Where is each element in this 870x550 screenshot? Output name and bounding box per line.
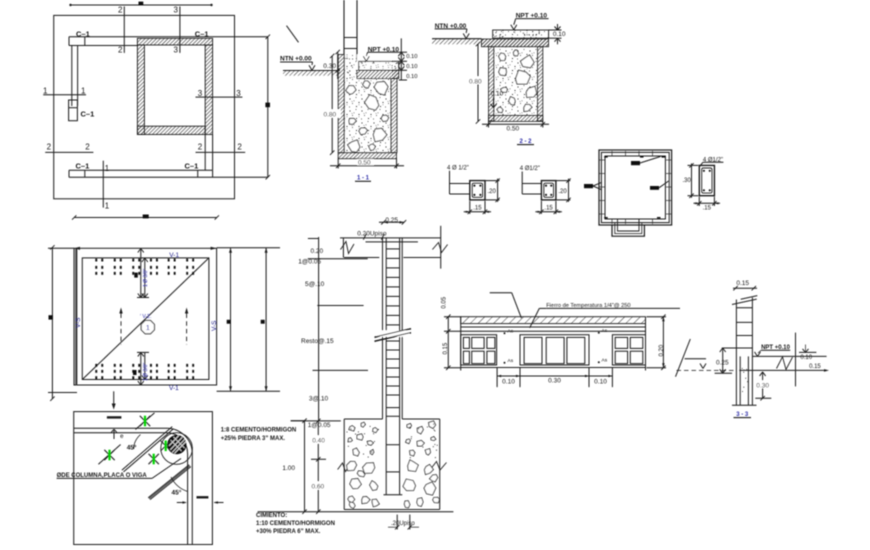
svg-text:0.20: 0.20 — [659, 344, 665, 356]
floor break — [777, 357, 793, 370]
dark hatch band — [481, 39, 548, 47]
svg-text:0.10: 0.10 — [502, 379, 515, 386]
left thick edge — [75, 248, 77, 385]
footing hatched border bottom — [338, 153, 396, 159]
slab bottom line — [461, 367, 646, 369]
svg-text:0.15: 0.15 — [736, 280, 749, 287]
svg-text:0.10: 0.10 — [491, 91, 504, 98]
wall top edge line — [69, 36, 268, 38]
right dim — [662, 317, 664, 368]
svg-text:.15: .15 — [703, 205, 712, 211]
footing rocks — [346, 86, 356, 95]
left wall lines — [71, 46, 73, 107]
svg-text:0.10: 0.10 — [406, 54, 417, 60]
e arrow — [113, 431, 115, 440]
bottom wall — [69, 169, 213, 171]
svg-text:.15: .15 — [473, 205, 482, 211]
dim line right — [267, 37, 269, 177]
footing border right — [538, 47, 543, 121]
svg-text:3: 3 — [174, 6, 179, 15]
dim 0.10 right — [799, 351, 816, 353]
svg-text:0.30: 0.30 — [323, 63, 336, 70]
svg-text:3: 3 — [174, 46, 179, 55]
width arrows bottom — [177, 502, 186, 504]
column break symbol — [375, 329, 412, 338]
bottom extension line — [258, 511, 454, 513]
dim height — [556, 180, 570, 182]
inner slab rect — [82, 258, 209, 380]
wall lines below structure — [204, 135, 206, 171]
dim 0.30 — [337, 52, 339, 79]
rebar tick marks — [611, 151, 613, 156]
axis lines through X marks — [135, 413, 154, 430]
svg-text:CIMIENTO:: CIMIENTO: — [256, 513, 287, 519]
svg-text:′ V-2.: ′ V-2. — [140, 314, 151, 320]
svg-text:2: 2 — [47, 143, 52, 152]
svg-text:+25% PIEDRA 3” MAX.: +25% PIEDRA 3” MAX. — [221, 436, 286, 442]
svg-text:V-S: V-S — [211, 320, 218, 331]
svg-text:0.30: 0.30 — [756, 382, 769, 389]
dim 0.25 — [722, 348, 724, 373]
bar section circle (hatched) — [168, 435, 186, 453]
column ties — [344, 37, 357, 39]
dim 0.10 floor — [549, 29, 562, 31]
bottom protrusion — [612, 225, 644, 236]
svg-text:As: As — [602, 328, 608, 334]
small tank plan — [584, 150, 672, 236]
hatched wall right — [205, 45, 212, 135]
svg-text:1: 1 — [81, 87, 86, 96]
dim 0.50 bottom — [337, 158, 339, 168]
svg-text:2: 2 — [118, 46, 123, 55]
svg-text:1@0.05: 1@0.05 — [298, 258, 321, 265]
footing rocks — [499, 53, 506, 60]
ground line — [432, 38, 481, 40]
foundation plan — [43, 2, 270, 211]
footing border left — [489, 47, 494, 121]
side edges — [460, 317, 462, 371]
svg-text:C–1: C–1 — [195, 29, 209, 38]
svg-text:2: 2 — [118, 6, 123, 15]
column section C-1 (a) — [447, 165, 500, 214]
mesh lines — [461, 326, 646, 328]
beam bottom lines — [344, 257, 379, 259]
column section C-1 (b) — [520, 166, 571, 214]
column section tall — [683, 157, 724, 211]
svg-text:0.80: 0.80 — [324, 112, 337, 119]
text cimiento — [256, 513, 335, 535]
dim 0.30 — [762, 372, 764, 398]
angle arc 2 + 45 deg — [171, 477, 188, 492]
svg-text:0.15: 0.15 — [443, 342, 449, 354]
ties in footing — [386, 444, 399, 446]
dim width — [540, 201, 542, 214]
section cut 2 (lower-right) — [196, 151, 246, 153]
footing fill — [494, 47, 538, 116]
thick dash right — [197, 496, 209, 498]
outer boundary — [54, 15, 235, 198]
hatched wall left — [137, 45, 144, 135]
ground hatch — [283, 71, 340, 76]
svg-text:4 Ø 1/2": 4 Ø 1/2" — [447, 165, 469, 171]
ground leader — [676, 339, 691, 377]
svg-text:45°: 45° — [172, 489, 182, 497]
block left — [461, 335, 497, 365]
bent bar inner line — [74, 433, 188, 545]
svg-text:0.10: 0.10 — [553, 31, 566, 38]
leader boxes — [631, 161, 640, 165]
bottom dims — [496, 368, 498, 387]
first tie line — [366, 241, 418, 243]
svg-text:1 Ø 3/8": 1 Ø 3/8" — [143, 269, 149, 287]
svg-text:1:10 CEMENTO/HORMIGON: 1:10 CEMENTO/HORMIGON — [256, 521, 335, 527]
hatched band under floor — [357, 70, 399, 78]
angle arc 1 + 45 deg — [134, 435, 141, 450]
svg-text:C–1: C–1 — [76, 161, 90, 170]
dashed arrows — [120, 314, 122, 345]
column marker dots — [134, 273, 138, 278]
block center — [520, 335, 589, 365]
corner detail — [57, 412, 224, 545]
axis bubble 1 — [141, 321, 154, 334]
section cut 1 (left) — [43, 94, 86, 96]
column below floor inner lines — [739, 356, 741, 405]
column — [735, 300, 737, 406]
svg-text:.20: .20 — [558, 189, 567, 195]
svg-text:C–1: C–1 — [76, 29, 90, 38]
svg-text:+30% PIEDRA 6” MAX.: +30% PIEDRA 6” MAX. — [256, 529, 321, 535]
svg-text:0.10: 0.10 — [406, 74, 417, 80]
column C-1 left end — [69, 100, 78, 121]
hatched wall bottom — [137, 126, 205, 134]
diagonal bar A — [122, 427, 172, 471]
outer slab rect — [74, 248, 217, 385]
block right — [612, 335, 645, 365]
svg-text:0.10: 0.10 — [594, 379, 607, 386]
dim .20Upiso bottom — [396, 515, 398, 530]
footing stones lower — [347, 462, 357, 471]
svg-text:0.25: 0.25 — [716, 360, 729, 367]
top-left leader — [490, 292, 512, 294]
left dim — [447, 317, 449, 368]
svg-text:C–1: C–1 — [185, 161, 199, 170]
svg-text:0.10: 0.10 — [406, 64, 417, 70]
dim 0.50 bottom — [488, 121, 490, 128]
column cross-section box — [541, 181, 556, 200]
slab section — [442, 293, 681, 387]
As labels — [504, 332, 506, 334]
floor lines — [752, 355, 826, 357]
footing stones upper — [349, 426, 355, 431]
dim 0.80 — [477, 44, 479, 122]
svg-text:0.40: 0.40 — [312, 438, 325, 445]
section cut 3 (right) — [196, 96, 243, 98]
svg-text:1:8 CEMENTO/HORMIGON: 1:8 CEMENTO/HORMIGON — [221, 428, 297, 434]
svg-text:.30: .30 — [683, 178, 692, 184]
section cut 2 (lower-left) — [45, 151, 93, 153]
dashed ground line — [677, 369, 737, 371]
arrow to detail — [113, 391, 115, 404]
svg-text:0.05: 0.05 — [442, 296, 448, 308]
svg-text:2: 2 — [85, 143, 90, 152]
section 3-3 — [676, 280, 833, 418]
svg-text:1 Ø 3/8": 1 Ø 3/8" — [143, 363, 149, 381]
svg-text:45°: 45° — [127, 444, 137, 452]
slab plan — [48, 215, 280, 410]
dim lines right 0.10 x3 — [400, 38, 402, 80]
column verticals — [382, 238, 384, 419]
svg-text:2: 2 — [237, 143, 242, 152]
section 1-1 — [280, 0, 417, 182]
top-left wall — [69, 45, 137, 47]
footing hatched border left — [338, 55, 344, 153]
footing hatched border right — [391, 79, 397, 153]
svg-text:2 - 2: 2 - 2 — [519, 139, 532, 145]
dim 1 dia 3/8 top — [140, 249, 142, 298]
leader — [521, 172, 523, 195]
base line — [732, 404, 757, 406]
svg-text:1: 1 — [146, 323, 150, 332]
svg-text:C–1: C–1 — [81, 110, 95, 119]
section 2-2 — [432, 13, 566, 145]
dim 0.80 left — [331, 56, 333, 153]
tick at 348 — [722, 347, 737, 349]
svg-text:.15: .15 — [544, 205, 553, 211]
right reference line — [795, 333, 797, 387]
svg-text:0.20Upiso: 0.20Upiso — [357, 230, 387, 237]
svg-text:5@.10: 5@.10 — [305, 281, 325, 288]
svg-text:3: 3 — [198, 89, 203, 98]
NTN level mark — [287, 26, 299, 43]
svg-text:3: 3 — [236, 89, 241, 98]
svg-text:1 - 1: 1 - 1 — [357, 176, 370, 182]
section cut 1 (bottom) — [102, 161, 104, 208]
svg-text:4 Ø1/2": 4 Ø1/2" — [520, 166, 540, 172]
footing border bottom — [489, 115, 543, 121]
green X marks — [140, 416, 150, 426]
svg-text:V-S: V-S — [75, 317, 82, 328]
footing side breaks — [338, 463, 351, 472]
svg-text:1.00: 1.00 — [282, 465, 295, 472]
beam break marks — [341, 242, 355, 254]
column elevation — [291, 217, 448, 495]
leader — [449, 171, 451, 194]
svg-text:.20: .20 — [488, 189, 497, 195]
thick dash top — [107, 416, 122, 418]
text 1:8 cemento — [221, 428, 297, 443]
svg-text:3@.10: 3@.10 — [309, 396, 329, 403]
svg-text:3 - 3: 3 - 3 — [736, 412, 749, 418]
svg-text:1@0.05: 1@0.05 — [308, 422, 331, 429]
svg-text:As: As — [508, 328, 514, 334]
svg-text:0.20: 0.20 — [311, 248, 324, 255]
svg-text:0.80: 0.80 — [469, 78, 482, 85]
floor slab — [493, 30, 549, 38]
svg-text:.20Upiso: .20Upiso — [391, 521, 415, 527]
diagonal — [82, 258, 209, 380]
svg-text:1: 1 — [105, 202, 110, 211]
diagonal bar B — [148, 465, 189, 498]
svg-text:0.60: 0.60 — [312, 484, 325, 491]
ties — [736, 307, 752, 309]
dim .30 — [688, 164, 699, 166]
svg-text:Resto@.15: Resto@.15 — [301, 338, 334, 345]
column ties — [386, 248, 399, 250]
svg-text:0.10: 0.10 — [800, 355, 812, 361]
floor slab (NPT) — [359, 61, 399, 70]
hatched wall top — [137, 38, 212, 45]
beam top line — [340, 237, 441, 239]
svg-text:V-1: V-1 — [169, 252, 179, 259]
bent bar horizontal+curve+vertical outer — [74, 428, 193, 544]
dim height — [486, 180, 500, 182]
footing dims — [317, 421, 319, 512]
dim line top — [70, 4, 212, 6]
column bars — [343, 0, 345, 55]
top slab hatched — [461, 317, 646, 324]
svg-text:1: 1 — [43, 87, 48, 96]
right dim lines — [217, 247, 280, 249]
column cross-section box — [470, 181, 485, 200]
svg-text:2: 2 — [198, 143, 203, 152]
left dim line and labels — [318, 237, 320, 421]
left dim line — [48, 247, 74, 249]
svg-text:0.50: 0.50 — [507, 125, 520, 132]
ground hatch — [432, 39, 481, 44]
column footing — [258, 419, 454, 530]
dim .15 — [698, 197, 700, 206]
svg-text:As: As — [602, 357, 608, 363]
svg-text:0.50: 0.50 — [358, 159, 371, 166]
svg-text:1: 1 — [105, 164, 110, 173]
ground line — [283, 70, 340, 72]
svg-text:V-1: V-1 — [169, 385, 179, 392]
footing concrete fill — [344, 55, 391, 153]
detail box — [74, 412, 213, 545]
section cut 3 (top) — [179, 6, 181, 53]
dim 1 dia 3/8 bottom — [140, 352, 142, 385]
svg-text:As: As — [508, 358, 514, 364]
top break slashes — [732, 299, 757, 304]
svg-text:0.15: 0.15 — [809, 364, 821, 370]
section cut 2 (top) — [123, 6, 125, 53]
dim width — [469, 201, 471, 214]
ring around bar — [161, 433, 193, 465]
stirrup dot clusters — [95, 259, 97, 262]
top dim line — [74, 217, 217, 219]
svg-text:0.30: 0.30 — [548, 378, 561, 385]
